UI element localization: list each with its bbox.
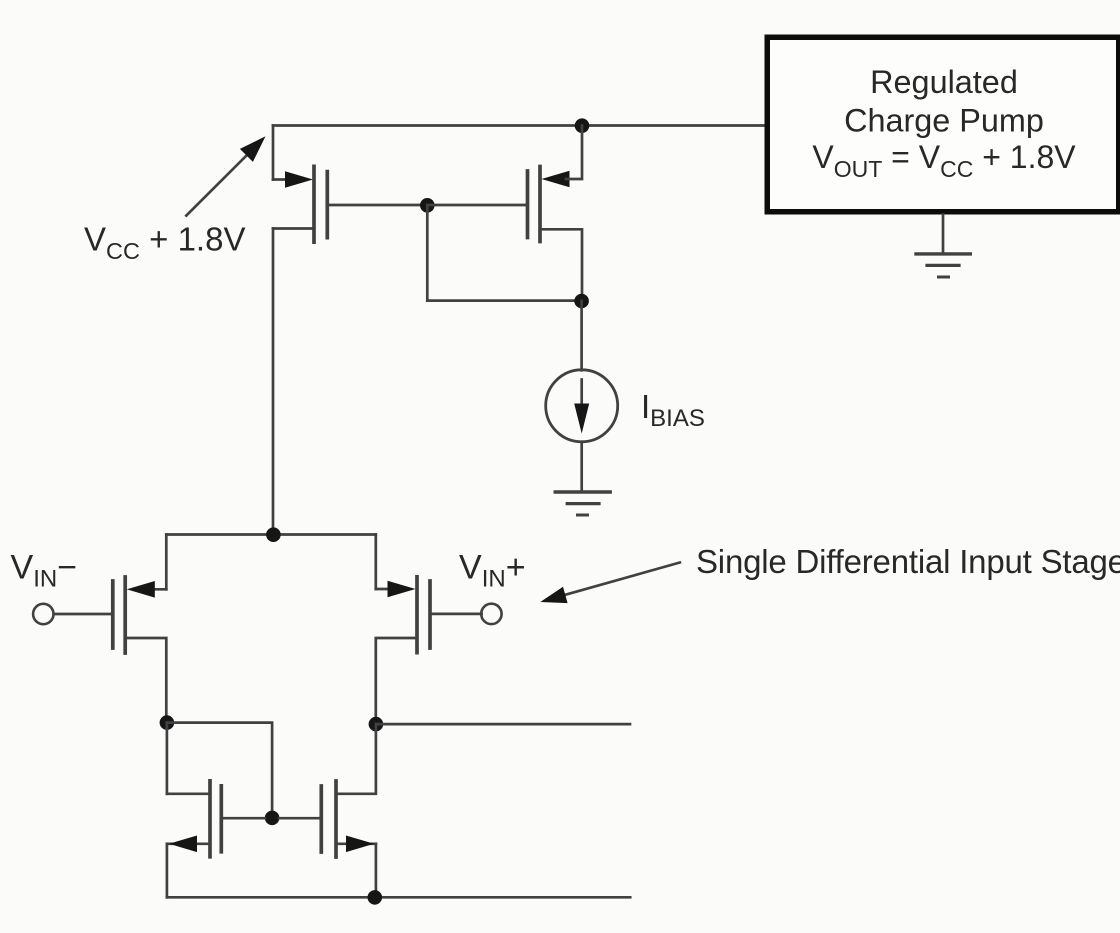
label Single Differential Input Stage bbox=[696, 543, 1120, 580]
node left drain junction bbox=[160, 715, 175, 730]
annotation arrow to input stage bbox=[540, 563, 680, 604]
node bottom rail junction bbox=[368, 890, 383, 905]
transistor M4 right input PMOS bbox=[376, 535, 482, 725]
terminal VIN+ bbox=[481, 604, 501, 624]
terminal VIN- bbox=[33, 604, 53, 624]
wire current source to ground bbox=[580, 442, 583, 491]
node mirror gate junction bbox=[265, 811, 280, 826]
label VIN+ bbox=[459, 549, 526, 593]
node top rail junction bbox=[575, 118, 590, 133]
svg-text:Regulated: Regulated bbox=[870, 64, 1018, 100]
transistor M1 top-left PMOS bbox=[273, 126, 427, 243]
wire bottom rail bbox=[167, 896, 630, 899]
wire M1 drain to input pair sources bbox=[272, 229, 275, 535]
node gate junction of PMOS mirror bbox=[420, 198, 435, 213]
transistor M2 top-right PMOS bbox=[427, 126, 582, 302]
box Regulated Charge Pump bbox=[767, 37, 1119, 212]
transistor M6 bottom-right NMOS bbox=[279, 724, 376, 897]
ground below box bbox=[916, 254, 970, 277]
transistor M3 left input PMOS bbox=[54, 535, 167, 723]
node M2 drain junction bbox=[574, 294, 589, 309]
wire gate-drain loop of M2 bbox=[427, 205, 581, 300]
transistor M5 bottom-left NMOS bbox=[167, 723, 265, 898]
node source rail junction bbox=[266, 527, 281, 542]
wire M2 drain to current source bbox=[580, 301, 583, 370]
svg-text:Single Differential Input Stag: Single Differential Input Stage bbox=[696, 543, 1120, 580]
current source IBIAS bbox=[546, 370, 618, 442]
label IBIAS bbox=[641, 388, 705, 432]
annotation arrow to VCC rail bbox=[186, 136, 265, 215]
wire mirror gate link bbox=[167, 723, 272, 818]
label VCC+1.8V bbox=[84, 221, 245, 265]
wire output tap bbox=[376, 723, 630, 726]
svg-text:Charge Pump: Charge Pump bbox=[844, 103, 1044, 139]
label VIN- bbox=[11, 549, 78, 593]
node right drain junction bbox=[369, 717, 384, 732]
wire VCC+1.8V top rail bbox=[273, 124, 765, 127]
wire box ground stem bbox=[942, 215, 945, 253]
ground below current source bbox=[555, 492, 610, 515]
wire input pair source rail bbox=[166, 533, 375, 536]
